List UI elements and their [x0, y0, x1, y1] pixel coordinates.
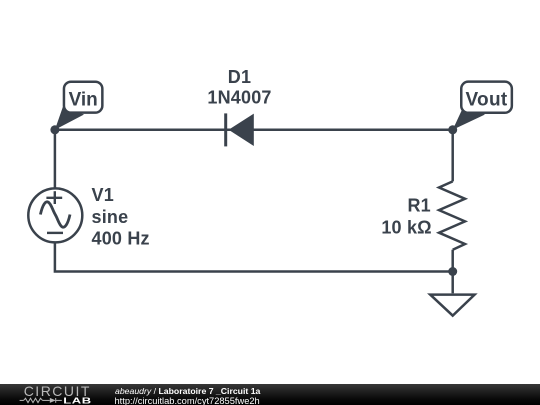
svg-text:1N4007: 1N4007 [207, 88, 271, 108]
svg-text:sine: sine [92, 207, 129, 227]
svg-text:Vin: Vin [69, 90, 98, 111]
svg-text:Vout: Vout [465, 90, 507, 111]
svg-text:LAB: LAB [63, 397, 92, 405]
svg-text:V1: V1 [92, 185, 114, 205]
svg-text:400 Hz: 400 Hz [92, 228, 150, 248]
svg-text:10 kΩ: 10 kΩ [381, 218, 431, 238]
svg-text:R1: R1 [407, 196, 430, 216]
svg-text:D1: D1 [228, 67, 251, 87]
